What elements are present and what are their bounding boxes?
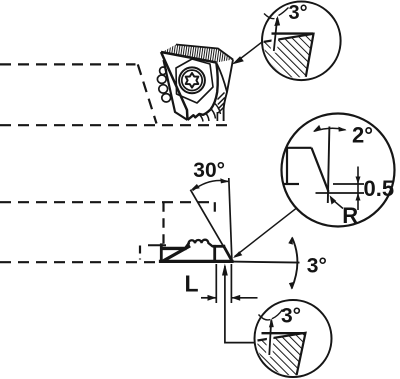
hatched wedge bbox=[263, 34, 314, 80]
head front edge ticks bbox=[218, 93, 225, 114]
wire: pocket dashed vertical right bbox=[214, 202, 216, 218]
head front edge below insert bbox=[224, 60, 233, 122]
tilted line white casing bbox=[269, 330, 270, 357]
R leader arrow bbox=[333, 200, 343, 209]
horizontal reference line bbox=[272, 32, 314, 34]
wire: pocket top solid line bbox=[148, 244, 166, 246]
L dimension bbox=[201, 264, 258, 303]
profile: left root line bbox=[283, 183, 299, 185]
30 deg reference vertical line bbox=[229, 178, 232, 261]
profile: left vertical bbox=[286, 148, 288, 184]
leader with up arrow to bottom circle bbox=[225, 266, 255, 343]
detail circle DC3 bbox=[255, 300, 332, 377]
svg-text:3°: 3° bbox=[289, 2, 308, 24]
bottom edge with notch bbox=[188, 110, 211, 121]
svg-text:R: R bbox=[342, 203, 358, 228]
0.5 dimension vertical with arrows bbox=[357, 167, 359, 211]
right lobe edge bbox=[211, 63, 218, 110]
profile: crest top line bbox=[286, 147, 311, 149]
tip horizontal reference line bbox=[232, 262, 300, 263]
svg-text:L: L bbox=[185, 270, 199, 296]
wire: pocket dashed vertical left bbox=[162, 202, 164, 246]
wire: side shank top dashed bbox=[0, 201, 215, 203]
detail circle DC1 bbox=[262, 2, 341, 81]
30 deg arc with arrows bbox=[193, 181, 229, 191]
profile: flank bbox=[312, 148, 329, 192]
30 deg slanted line bbox=[190, 190, 232, 261]
3 deg arc right of tip bbox=[292, 238, 298, 289]
wire: shank bottom dashed line bbox=[0, 124, 232, 126]
top edge bbox=[161, 52, 216, 63]
leader to top detail circle bbox=[234, 41, 264, 64]
0.5 reference lines bbox=[333, 183, 364, 185]
wire: shank top dashed line bbox=[0, 64, 232, 125]
head short vertical bbox=[216, 112, 218, 121]
wire: small dashed vertical at pocket bbox=[139, 246, 141, 260]
main left edge bbox=[161, 52, 188, 120]
svg-text:30°: 30° bbox=[193, 159, 225, 182]
tilted line white casing bbox=[274, 28, 277, 53]
insert inner face hexagon bbox=[176, 59, 213, 103]
insert curls (relief marks bottom-right) bbox=[200, 103, 221, 122]
svg-text:2°: 2° bbox=[352, 123, 373, 148]
tilted 3 deg face line bbox=[269, 320, 271, 355]
insert side face line (lower right) bbox=[217, 64, 227, 92]
leader from tip to middle circle bbox=[235, 207, 298, 256]
screw S1 torx head bbox=[179, 67, 205, 93]
svg-text:0.5: 0.5 bbox=[364, 176, 395, 201]
tilted 3deg face line bbox=[274, 18, 277, 51]
hatched wedge bbox=[258, 333, 306, 377]
insert I2 side profile bbox=[161, 240, 233, 262]
detail circle DC2 bbox=[282, 114, 395, 227]
2 deg arc bbox=[314, 128, 346, 131]
insert I1 trigon outline bbox=[161, 52, 218, 120]
svg-text:3°: 3° bbox=[307, 255, 327, 278]
wire: side shank bottom dashed bbox=[0, 261, 160, 263]
svg-text:3°: 3° bbox=[281, 305, 301, 328]
arrow + curve bbox=[264, 14, 275, 19]
wire: shank head dashed diagonal bbox=[138, 64, 157, 123]
serration side line bbox=[164, 60, 188, 120]
2 deg front face line bbox=[328, 127, 330, 204]
insert serration bumps on left lower edge bbox=[157, 67, 170, 102]
arrow + curve bbox=[259, 315, 271, 320]
horizontal reference line bbox=[262, 332, 306, 334]
